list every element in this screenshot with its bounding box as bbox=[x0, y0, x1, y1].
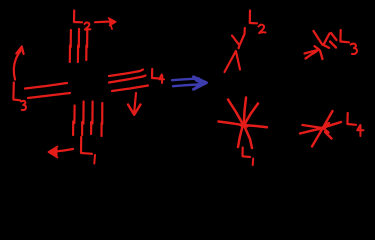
label L4 right bbox=[152, 69, 164, 83]
label L1 right side bbox=[243, 148, 254, 166]
blue implication arrow bbox=[172, 77, 207, 90]
label L3 left bbox=[13, 83, 26, 111]
curved up arrow above L3 bbox=[14, 47, 24, 80]
bond lines bottom branch bbox=[73, 102, 102, 137]
caret mark under arrow bbox=[225, 51, 241, 72]
bottom-left asterisk bbox=[219, 98, 268, 149]
label L4 right side bbox=[347, 113, 363, 136]
label L3 right side bbox=[340, 30, 357, 54]
label L2 top bbox=[74, 11, 91, 30]
bond lines right branch bbox=[109, 70, 148, 92]
bond lines top branch bbox=[70, 28, 88, 62]
down arrow under right branch bbox=[128, 93, 141, 115]
label L2 right side bbox=[250, 11, 266, 34]
bond lines left branch bbox=[25, 83, 70, 98]
label L1 bottom bbox=[81, 137, 95, 164]
bottom-right asterisk bbox=[300, 111, 341, 147]
left arrow near L1 bbox=[49, 147, 74, 158]
top-right asterisk bbox=[305, 31, 337, 59]
down arrow from L2 bbox=[232, 28, 245, 48]
arrow right of L2 bbox=[95, 18, 116, 29]
